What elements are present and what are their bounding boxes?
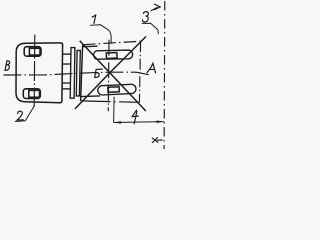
view direction arrow top right	[151, 4, 161, 11]
body outline	[16, 43, 63, 103]
terminal slot upper	[94, 50, 133, 59]
upper mounting slot outer	[24, 47, 41, 57]
label 3	[142, 12, 148, 22]
label В	[5, 61, 10, 71]
part bottom edge solid	[81, 95, 100, 98]
leader for label 1	[90, 25, 111, 44]
connector line b	[63, 63, 71, 65]
plate 1	[70, 48, 75, 99]
part left edge	[81, 45, 83, 101]
label 1	[92, 15, 96, 24]
terminal inner rect upper	[106, 53, 117, 59]
dimension arrow right	[157, 121, 164, 124]
X cross diagonal 2	[75, 37, 146, 109]
connector line a	[63, 53, 71, 55]
plate 2	[76, 50, 80, 96]
label 2	[17, 111, 23, 120]
right axis dash-dot vertical	[163, 1, 166, 149]
label 4	[132, 110, 138, 124]
connector line d	[62, 88, 70, 90]
dimension extension line	[113, 97, 116, 123]
label Б	[95, 69, 103, 77]
lower slot inner screw rect	[29, 90, 40, 97]
terminal inner rect lower	[108, 87, 120, 93]
label A	[147, 63, 156, 72]
leader for label 2	[15, 106, 34, 122]
dimension arrow left	[114, 121, 122, 124]
part bottom boundary dash-dot	[81, 101, 140, 102]
connector line c	[62, 82, 70, 84]
lower mounting slot outer	[23, 89, 40, 99]
dimension line	[114, 121, 164, 124]
leader for label 3	[142, 23, 159, 34]
slot axis vertical centerline	[33, 35, 36, 108]
part top boundary dash-dot	[83, 41, 141, 45]
main horizontal centerline	[4, 72, 151, 75]
part vertical axis centerline	[107, 40, 110, 111]
X cross diagonal 1	[80, 41, 146, 111]
part right boundary dash-dot	[139, 41, 140, 102]
upper slot inner screw rect	[29, 48, 40, 55]
terminal slot lower	[98, 84, 136, 95]
part top edge solid	[83, 45, 98, 48]
x mark bottom right	[152, 137, 163, 143]
